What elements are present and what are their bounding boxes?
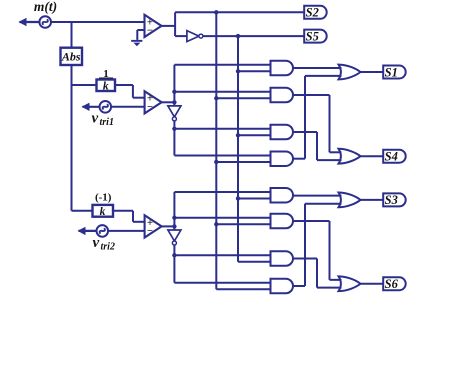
or gate O3 [339,193,361,208]
wire down to Abs [71,22,73,48]
node A to AND2 [172,90,176,94]
tag S3 [383,193,406,207]
wire U2 out [162,101,175,103]
svg-text:S1: S1 [385,65,398,79]
wire Cn to AND5 [238,197,271,199]
svg-text:v: v [92,111,99,127]
wire B vertical up [173,192,175,226]
wire gain K1 out [115,85,145,98]
input arrow 2 [82,103,100,111]
wire gain K2 out [113,211,145,222]
wire Bn vertical [174,245,270,283]
wire B to AND5 [174,191,270,193]
and gate G2 [271,88,294,103]
wire Abs down [71,65,73,211]
comparator U2 [145,91,162,113]
wire Cn to AND1 [238,70,271,72]
wire U3 out [162,225,175,227]
node B to AND6 [172,216,176,220]
inverter N2 [168,106,181,121]
and gate G3 [271,125,294,140]
svg-text:Abs: Abs [61,50,81,64]
wire N1 to S5 [203,35,305,37]
wire O2 to S4 [361,155,384,157]
node C to AND4 [214,160,218,164]
tag S5 [304,29,327,43]
comparator U3 [145,215,162,237]
svg-text:m(t): m(t) [34,0,57,14]
inverter N3 [168,230,181,245]
and gate G6 [271,214,294,229]
ground wire [137,30,144,40]
wire G6 to O4 [293,221,342,280]
wire vtri1 to U2 [111,106,145,108]
node Cn to AND3 [236,133,240,137]
wire to S2 [175,11,304,13]
node bus Cn tap [236,34,240,38]
ground [131,40,142,46]
svg-text:(-1): (-1) [95,191,112,203]
tag S2 [304,6,327,20]
inverter N1 [187,31,203,42]
svg-text:k: k [103,80,109,92]
svg-text:tri2: tri2 [101,241,115,252]
wire A to AND2 [174,91,270,93]
wire A to AND1 [174,64,270,66]
source m(t) [39,16,51,28]
node C to AND6 [214,222,218,226]
or gate O1 [339,65,361,80]
node Cn to AND5 [236,196,240,200]
svg-text:−: − [147,226,153,237]
wire to gain K2 [72,210,93,212]
node Bn to AND7 [172,253,176,257]
node U3 out [172,224,176,228]
block Abs [61,48,83,65]
wire B to AND6 [174,217,270,219]
wire to gain K1 [72,84,97,86]
bus C vertical [216,12,270,289]
and gate G5 [271,188,294,203]
label vtri1 [92,111,114,129]
tag S4 [383,150,406,164]
and gate G8 [271,279,294,294]
wire O1 to S1 [361,71,384,73]
node bus C tap [214,10,218,14]
svg-text:−: − [147,25,153,36]
wire G2 to O2 [293,95,342,152]
wire G8 to O3 [293,204,342,286]
node Cn to AND1 [236,69,240,73]
wire U1 out [162,25,176,27]
svg-text:k: k [100,206,106,218]
tag S6 [383,277,406,291]
wire C to AND6 [216,223,270,225]
wire G1 to O1 [293,67,342,69]
node An to AND3 [172,127,176,131]
wire O4 to S6 [361,283,384,285]
wire A vertical up [173,65,175,103]
bus Cn vertical [238,36,271,262]
wire An to AND3 [174,128,270,130]
input arrow 1 [19,18,40,26]
input arrow 3 [78,227,97,235]
wire Cn to AND3 [238,134,271,136]
wire to inverter N1 [175,35,187,37]
svg-text:S3: S3 [385,193,398,207]
wire U1 branch vertical [174,12,176,36]
wire G4 to O1 [293,76,342,159]
and gate G4 [271,151,294,166]
wire U3 to inverter N3 [173,226,175,230]
wire G3 to O2 [293,132,342,160]
wire C to AND2 [216,97,270,99]
wire G5 to O3 [293,195,342,197]
wire vtri2 to U3 [108,230,145,232]
tag S1 [383,65,406,79]
or gate O2 [339,149,361,164]
and gate G7 [271,251,294,266]
source vtri1 [100,101,112,113]
svg-text:−: − [147,102,153,113]
wire Bn to AND7 [174,254,270,256]
source vtri2 [97,225,109,237]
and gate G1 [271,61,294,76]
wire m(t) to comparator U1 [51,21,145,23]
wire O3 to S3 [361,199,384,201]
svg-text:S5: S5 [306,29,319,43]
svg-text:v: v [93,235,100,251]
gain K2 value (-1)/k [93,191,114,218]
gain K1 value 1/k [97,68,116,92]
or gate O4 [339,276,361,291]
wire An vertical [174,121,270,156]
svg-text:S6: S6 [385,277,399,291]
wire G7 to O4 [293,259,342,288]
wire C to AND4 [216,161,270,163]
wire U2 to inverter N2 [173,102,175,106]
comparator U1 [145,15,162,37]
label vtri2 [93,235,115,253]
node U2 out [172,100,176,104]
svg-text:S2: S2 [306,6,319,20]
svg-text:S4: S4 [385,150,398,164]
node C to AND2 [214,96,218,100]
label m(t) [34,0,57,14]
svg-text:tri1: tri1 [100,117,114,128]
